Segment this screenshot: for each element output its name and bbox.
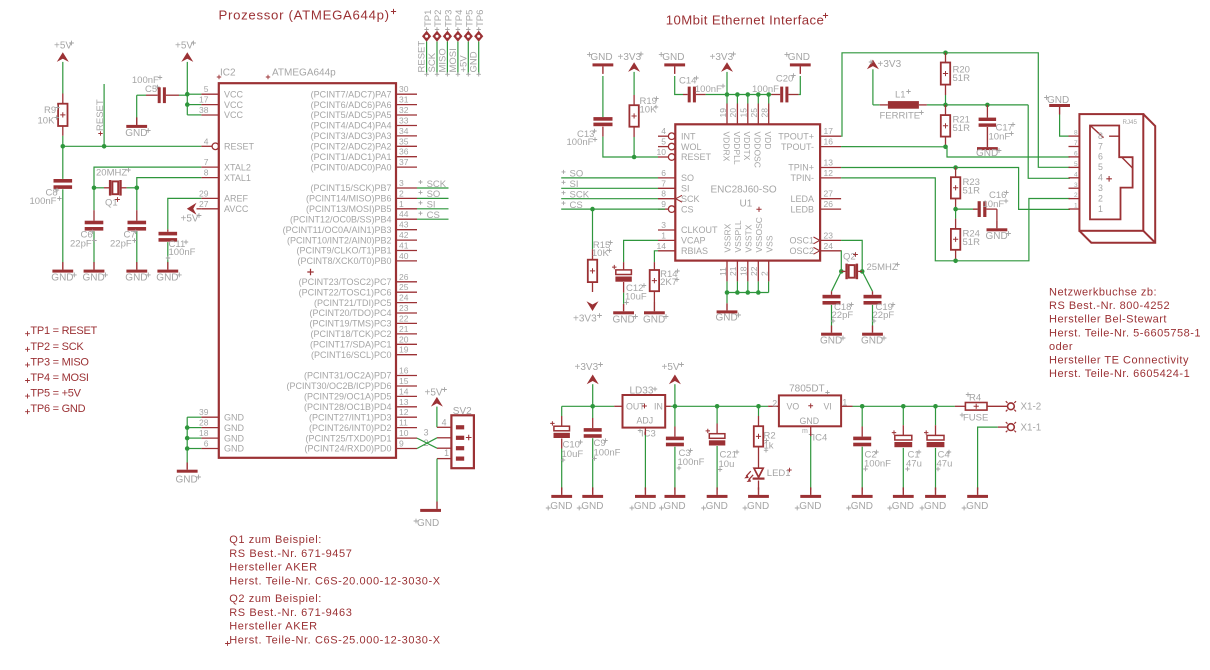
svg-text:8: 8 [204,168,209,178]
wire OSC2 [840,251,842,272]
svg-text:TP3: TP3 [444,10,455,27]
capacitor C9 100nF [592,406,594,418]
svg-text:15: 15 [399,376,409,386]
U1 pin 25 VDDOSC [757,104,759,125]
terminal X1-2 [1008,403,1015,410]
svg-text:MOSI: MOSI [448,48,459,72]
svg-text:GND: GND [706,501,728,512]
svg-text:+3V3: +3V3 [710,52,734,63]
svg-text:18: 18 [199,428,209,438]
svg-text:RESET: RESET [417,41,428,73]
wire [62,136,64,147]
svg-text:SCK: SCK [681,194,700,204]
svg-text:TPIN-: TPIN- [791,173,815,183]
svg-text:10nF: 10nF [983,199,1005,210]
svg-text:Herst. Teile-Nr. 6605424-1: Herst. Teile-Nr. 6605424-1 [1049,368,1190,380]
svg-text:22pF: 22pF [110,238,132,249]
svg-text:4: 4 [1098,173,1103,183]
svg-text:XTAL1: XTAL1 [224,173,251,183]
ground (C3) [674,487,676,495]
svg-text:TP1: TP1 [423,10,434,27]
svg-text:23: 23 [399,303,409,313]
IC2 pin 20 PC1 [396,343,417,345]
capacitor C21 10u [716,406,718,423]
capacitor C16 10nF [956,208,978,210]
svg-text:RBIAS: RBIAS [681,246,708,256]
IC2 pin 12 PD3 [396,416,417,418]
svg-text:4: 4 [661,126,666,136]
svg-text:8: 8 [1098,131,1103,141]
svg-text:VSSPLL: VSSPLL [733,220,743,252]
svg-text:16: 16 [824,137,834,147]
U1 pin 1 VCAP [658,239,675,241]
IC2 pin 28 GND [201,427,219,429]
svg-text:TP4 = MOSI: TP4 = MOSI [30,372,89,384]
wire [436,42,438,75]
wire [62,62,64,94]
svg-text:VCAP: VCAP [681,236,706,246]
svg-text:Prozessor (ATMEGA644p): Prozessor (ATMEGA644p) [219,8,390,23]
IC U1 ENC28J60-SO box [675,124,820,260]
net label SCK (IC2) [417,187,449,189]
RJ45 pin 7 [1069,146,1080,148]
svg-text:Q1: Q1 [105,197,118,208]
svg-text:SO: SO [681,173,694,183]
junction [185,92,190,97]
ground (C21) [716,487,718,495]
svg-text:10K: 10K [38,115,56,126]
svg-text:+3V3: +3V3 [618,52,642,63]
svg-text:44: 44 [399,209,409,219]
wire [633,137,635,157]
junction [901,404,906,409]
svg-text:RESET: RESET [224,142,255,152]
svg-text:(PCINT12/OC0B/SS)PB4: (PCINT12/OC0B/SS)PB4 [290,214,392,224]
svg-text:(PCINT29/OC1A)PD5: (PCINT29/OC1A)PD5 [304,392,392,402]
svg-text:Netzwerkbuchse zb:: Netzwerkbuchse zb: [1049,287,1157,299]
wire SI (U1) [561,187,658,189]
svg-text:m: m [802,428,808,435]
wire [757,95,759,104]
svg-text:3: 3 [399,178,404,188]
svg-text:Hersteller AKER: Hersteller AKER [229,562,317,574]
IC2 pin 42 PB2 [396,239,417,241]
svg-text:(PCINT31/OC2A)PD7: (PCINT31/OC2A)PD7 [304,371,392,381]
IC IC2 ATMEGA644p box [219,83,396,458]
svg-text:Q2 zum Beispiel:: Q2 zum Beispiel: [229,593,322,605]
capacitor C7 [136,188,138,210]
junction [135,186,140,191]
svg-text:26: 26 [824,199,834,209]
U1 pin 27 LEDA [820,198,841,200]
svg-text:(PCINT2/ADC2)PA2: (PCINT2/ADC2)PA2 [311,142,392,152]
svg-text:ENC28J60-SO: ENC28J60-SO [711,185,777,196]
svg-text:5: 5 [1074,161,1078,168]
wire [426,42,428,75]
svg-text:Herst. Teile-Nr. 5-6605758-1: Herst. Teile-Nr. 5-6605758-1 [1049,327,1201,339]
svg-text:100nF: 100nF [567,137,594,148]
wire [747,95,749,104]
svg-text:(PCINT15/SCK)PB7: (PCINT15/SCK)PB7 [310,183,391,193]
svg-text:(PCINT14/MISO)PB6: (PCINT14/MISO)PB6 [306,194,392,204]
IC2 pin 1 PB5 [396,208,417,210]
fuse R4 [955,405,966,407]
U1 pin 24 OSC2 [820,250,841,252]
junction [756,290,761,295]
svg-text:GND: GND [662,52,684,63]
U1 pin 18 VSSTX [747,261,749,282]
svg-text:LED1: LED1 [767,468,791,479]
svg-text:TP4: TP4 [454,10,465,27]
IC2 origin cross [307,269,313,275]
svg-text:VDDTX: VDDTX [742,132,752,161]
supply +3V3 (below R15) [587,301,599,311]
svg-text:(PCINT27/INT1)PD3: (PCINT27/INT1)PD3 [309,412,392,422]
wire 3V3 rail [562,405,615,407]
svg-text:14: 14 [657,241,667,251]
svg-text:+3V3: +3V3 [573,314,597,325]
junction [953,165,958,170]
svg-text:VDD: VDD [763,132,773,150]
svg-text:+5V: +5V [181,213,199,224]
svg-text:10nF: 10nF [989,131,1011,142]
svg-text:11: 11 [718,267,728,276]
SV2 pin 3 [437,437,451,439]
wire 7805 gnd [810,426,812,436]
svg-text:RS Best.-Nr. 671-9457: RS Best.-Nr. 671-9457 [229,548,352,560]
junction [943,51,948,56]
ground (ADJ) [644,487,646,495]
IC2 pin 37 PA0 [396,166,417,168]
svg-text:100nF: 100nF [30,196,57,207]
ground (C11) [167,262,169,270]
svg-text:34: 34 [399,126,409,136]
IC2 pin 15 PD6 [396,385,417,387]
IC2 pin 26 PC7 [396,281,417,283]
U1 pin 21 VSSPLL [736,261,738,282]
IC2 pin 30 PA7 [396,93,417,95]
svg-text:OSC2: OSC2 [789,246,814,256]
IC2 pin 8 XTAL1 [201,177,219,179]
svg-text:11: 11 [399,418,408,428]
junction [185,436,190,441]
svg-text:SO: SO [570,169,584,180]
junction [185,425,190,430]
svg-text:IN: IN [654,402,663,412]
ground (C12) [623,304,625,311]
svg-text:SV2: SV2 [453,406,472,417]
svg-text:(PCINT23/TOSC2)PC7: (PCINT23/TOSC2)PC7 [299,277,392,287]
svg-text:RS Best.-Nr. 671-9463: RS Best.-Nr. 671-9463 [229,607,352,619]
wire AREF [168,198,202,229]
wire VCC feed [186,62,188,115]
svg-text:1: 1 [444,448,449,458]
capacitor C3 100nF [674,406,676,426]
svg-text:16: 16 [399,366,409,376]
svg-text:7: 7 [1074,140,1078,147]
svg-text:GND: GND [800,416,820,426]
svg-text:24: 24 [399,293,409,303]
junction [953,259,958,264]
svg-text:+5V: +5V [54,41,72,52]
junction [92,186,97,191]
svg-text:12: 12 [824,168,834,178]
U1 pin 4 INT [658,135,668,137]
svg-text:(PCINT26/INT0)PD2: (PCINT26/INT0)PD2 [309,423,392,433]
svg-text:(PCINT25/TXD0)PD1: (PCINT25/TXD0)PD1 [305,433,391,443]
svg-text:10uF: 10uF [562,449,584,460]
IC2 pin 34 PA3 [396,135,417,137]
svg-text:47u: 47u [906,458,922,469]
wire CS (U1) [561,208,665,210]
svg-text:51R: 51R [963,237,981,248]
U1 pin 8 SCK [658,198,675,200]
wire [832,271,842,291]
ground (IC4) [810,487,812,495]
wire [736,95,738,104]
svg-text:FERRITE: FERRITE [880,110,921,121]
wire OSC1 [841,240,862,271]
svg-text:3: 3 [1098,183,1103,193]
svg-text:VDDOSC: VDDOSC [753,132,763,168]
capacitor C8 [62,146,64,179]
svg-text:10: 10 [399,428,409,438]
svg-text:TPOUT-: TPOUT- [781,142,814,152]
svg-text:TP3 = MISO: TP3 = MISO [30,356,89,368]
wire RESET vertical [103,84,105,146]
IC2 pin 33 PA4 [396,125,417,127]
svg-text:RESET: RESET [95,99,106,131]
svg-text:100nF: 100nF [594,447,621,458]
svg-text:AREF: AREF [224,194,249,204]
voltage regulator IC4 7805DT [768,405,779,407]
svg-text:GND: GND [851,501,873,512]
svg-text:2: 2 [1074,192,1078,199]
svg-text:WOL: WOL [681,142,702,152]
wire [726,72,728,95]
net label SO (IC2) [417,197,449,199]
supply +5V (LD33 in) [669,375,681,385]
wire SO (U1) [561,177,658,179]
capacitor C12 10uF [623,262,625,270]
IC2 pin 24 PC5 [396,302,417,304]
resistor R19 [633,72,635,95]
wire [726,281,728,292]
svg-text:RS Best.-Nr. 800-4252: RS Best.-Nr. 800-4252 [1049,300,1170,312]
crystal Q1 20MHZ [94,187,104,189]
ground (C5) [136,121,138,125]
junction [715,404,720,409]
RJ45 pin 4 [1069,177,1080,179]
svg-text:VSSOSC: VSSOSC [754,217,764,252]
crystal Q2 25MHZ [841,270,845,272]
wire to pin 17 [187,104,201,106]
svg-text:GND: GND [1047,95,1069,106]
wire TPOUT- [841,146,945,148]
svg-text:10K: 10K [592,248,610,259]
supply +5V (SV2) [431,397,443,407]
svg-text:(PCINT19/TMS)PC3: (PCINT19/TMS)PC3 [309,319,391,329]
svg-text:GND: GND [581,501,603,512]
svg-text:GND: GND [125,128,147,139]
svg-text:(PCINT5/ADC5)PA5: (PCINT5/ADC5)PA5 [311,110,392,120]
svg-text:(PCINT1/ADC1)PA1: (PCINT1/ADC1)PA1 [311,152,392,162]
ground (C4) [935,487,937,495]
wire VI rail [841,405,852,407]
wire [747,281,749,292]
ground (C17) [986,127,988,147]
ground (LED1) [758,487,760,495]
voltage regulator IC3 LD33 [614,405,622,407]
svg-text:28: 28 [199,418,209,428]
svg-text:22pF: 22pF [832,310,854,321]
RJ45 pin 1 [1069,208,1080,210]
svg-text:VSSTX: VSSTX [743,224,753,252]
svg-text:+3V3: +3V3 [575,362,599,373]
IC2 pin 19 PC0 [396,354,417,356]
U1 pin 3 CLKOUT [658,229,675,231]
ground (C8) [62,262,64,270]
svg-text:VCC: VCC [224,89,244,99]
capacitor C2 100nF [861,406,863,426]
U1 pin 11 VSSRX [726,261,728,282]
IC2 pin 17 VCC [201,104,219,106]
U1 pin 9 CS [658,208,668,210]
svg-text:20: 20 [728,108,738,118]
svg-text:VSS: VSS [764,235,774,252]
svg-text:GND: GND [861,336,883,347]
wire VDD rail [706,94,772,96]
capacitor C6 [93,188,95,210]
svg-text:1k: 1k [764,440,774,451]
svg-text:25: 25 [749,108,759,118]
IC2 pin 4 RESET [201,145,212,147]
capacitor C1 47u [902,406,904,425]
svg-text:(PCINT22/TOSC1)PC6: (PCINT22/TOSC1)PC6 [299,287,392,297]
U1 pin 17 TPOUT+ [820,135,841,137]
svg-text:(PCINT9/CLKO/T1)PB1: (PCINT9/CLKO/T1)PB1 [296,246,391,256]
resistor R21 51R [945,105,947,115]
svg-text:1: 1 [1098,204,1103,214]
svg-text:3: 3 [1074,182,1078,189]
svg-text:39: 39 [199,407,209,417]
wire VCAP [624,240,658,262]
text TP assignments [25,331,30,336]
svg-text:GND: GND [976,148,998,159]
junction [61,144,66,149]
svg-text:2: 2 [399,188,404,198]
svg-text:GND: GND [156,272,178,283]
junction [943,103,948,108]
svg-text:(PCINT7/ADC7)PA7: (PCINT7/ADC7)PA7 [311,89,392,99]
svg-text:+5V: +5V [175,41,193,52]
svg-text:13: 13 [399,397,409,407]
svg-text:X1-1: X1-1 [1021,423,1042,434]
U1 pin 5 WOL [658,146,668,148]
svg-text:GND: GND [550,501,572,512]
junction [860,404,865,409]
svg-text:GND: GND [469,51,480,72]
junction [756,404,761,409]
ground (C7) [136,262,138,270]
svg-text:24: 24 [824,241,834,251]
svg-text:Hersteller TE Connectivity: Hersteller TE Connectivity [1049,355,1189,367]
U1 pin 22 VSSOSC [757,261,759,282]
svg-text:47u: 47u [937,458,953,469]
svg-text:32: 32 [399,105,409,115]
wire VSS rail [727,292,769,294]
svg-text:VI: VI [824,402,832,412]
resistor R24 51R [955,209,957,219]
svg-text:10u: 10u [719,459,735,470]
svg-text:OSC1: OSC1 [789,236,814,246]
svg-text:22pF: 22pF [70,238,92,249]
svg-text:TP1 = RESET: TP1 = RESET [30,325,97,337]
svg-text:ATMEGA644p: ATMEGA644p [272,67,336,78]
svg-text:6: 6 [1074,151,1078,158]
wire [478,42,480,75]
svg-text:Herst. Teile-Nr. C6S-20.000-12: Herst. Teile-Nr. C6S-20.000-12-3030-X [229,575,441,587]
svg-text:13: 13 [824,158,834,168]
svg-text:VO: VO [787,402,800,412]
svg-text:100nF: 100nF [678,457,705,468]
svg-text:(PCINT24/RXD0)PD0: (PCINT24/RXD0)PD0 [304,444,391,454]
junction [746,290,751,295]
svg-text:SI: SI [681,184,690,194]
IC2 pin 7 XTAL2 [201,166,219,168]
junction [725,92,730,97]
ground (R14) [653,302,655,311]
svg-text:LEDA: LEDA [790,194,814,204]
svg-text:10Mbit Ethernet Interface: 10Mbit Ethernet Interface [666,12,825,27]
resistor R9 [62,94,64,104]
svg-text:23: 23 [824,230,834,240]
svg-text:(PCINT17/SDA)PC1: (PCINT17/SDA)PC1 [310,340,392,350]
svg-text:AVCC: AVCC [224,204,249,214]
wire TPIN- to jack pin 2 [841,178,1070,261]
SV2 pin 4 [437,426,451,428]
svg-text:C20: C20 [776,73,793,84]
svg-text:17: 17 [199,95,209,105]
svg-text:5: 5 [661,137,666,147]
wire [862,271,872,291]
svg-text:LEDB: LEDB [790,204,814,214]
junction [953,207,958,212]
svg-text:INT: INT [681,131,696,141]
svg-text:3: 3 [661,220,666,230]
svg-text:3: 3 [424,427,429,437]
svg-text:41: 41 [399,241,409,251]
svg-text:9: 9 [661,199,666,209]
wire [436,407,438,428]
ground (C14 top) [664,63,685,66]
wire [736,281,738,292]
SV2 pin 2 [437,447,451,449]
svg-text:7: 7 [661,178,666,188]
svg-text:25: 25 [399,282,409,292]
svg-text:(PCINT10/INT2/AIN0)PB2: (PCINT10/INT2/AIN0)PB2 [287,235,392,245]
svg-text:7805DT: 7805DT [789,384,825,395]
resistor R15 10K [592,209,594,249]
supply +5V (AVCC) [187,203,197,215]
svg-text:Hersteller Bel-Stewart: Hersteller Bel-Stewart [1049,314,1167,326]
svg-text:TP2 = SCK: TP2 = SCK [30,341,84,353]
svg-text:+5V: +5V [458,55,469,73]
wire RBIAS [654,251,658,262]
U1 pin 28 VDD [768,104,770,125]
junction [943,145,948,150]
wire PD1 to SV2 pin 2 (cross) [417,438,437,448]
